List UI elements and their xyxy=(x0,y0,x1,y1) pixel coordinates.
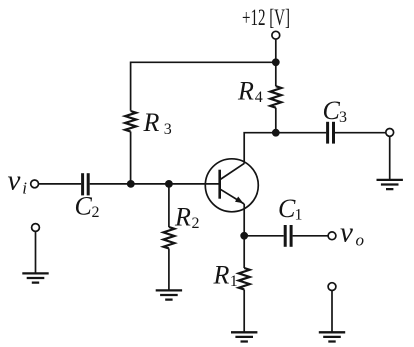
label C1 xyxy=(278,194,303,223)
svg-text:C: C xyxy=(278,194,296,223)
node A junction dot xyxy=(272,58,280,66)
ground under R2 xyxy=(156,290,182,299)
wire terminal down to ground xyxy=(389,136,391,179)
terminal output reference (open circle) xyxy=(328,283,336,291)
wire node C to Q1 collector xyxy=(244,133,276,164)
ground under C3 terminal xyxy=(377,180,403,189)
wire Q1 emitter down to node E xyxy=(243,204,245,236)
label R3 xyxy=(143,108,172,138)
wire R3 bottom to node B xyxy=(130,132,132,184)
wire C1 to vo terminal xyxy=(293,235,329,237)
node E junction dot (emitter node) xyxy=(240,232,248,240)
terminal left reference (open circle) xyxy=(32,224,40,232)
resistor R2 zigzag xyxy=(163,227,174,248)
wire node B to node D xyxy=(131,183,169,185)
svg-text:3: 3 xyxy=(339,109,347,126)
wire vi terminal to C2 xyxy=(39,183,82,185)
wire node A to R3 top (L corner) xyxy=(131,62,276,111)
svg-text:R: R xyxy=(237,77,254,106)
node B junction dot (base rail left) xyxy=(127,180,135,188)
svg-text:3: 3 xyxy=(164,121,172,138)
wire R1 bottom to ground xyxy=(243,290,245,332)
svg-text:+12 [V]: +12 [V] xyxy=(242,5,290,30)
capacitor C3 plates xyxy=(328,122,334,144)
wire C2 to node B xyxy=(90,183,131,185)
ground under R1 xyxy=(231,332,257,341)
wire node D to Q1 base xyxy=(169,183,220,185)
svg-text:v: v xyxy=(340,216,353,248)
svg-text:R: R xyxy=(143,108,160,137)
ground left reference xyxy=(22,273,48,282)
svg-text:1: 1 xyxy=(230,273,238,290)
wire C3 to output terminal xyxy=(335,132,386,134)
terminal vi input (open circle) xyxy=(31,180,39,188)
label C2 xyxy=(75,192,100,222)
label R2 xyxy=(174,203,200,233)
terminal +12V supply (open circle) xyxy=(272,31,280,39)
capacitor C2 plates xyxy=(83,173,89,195)
resistor R3 zigzag xyxy=(125,111,136,132)
node C junction dot (collector node) xyxy=(272,129,280,137)
svg-text:R: R xyxy=(174,203,191,232)
svg-text:i: i xyxy=(22,178,27,197)
transistor Q1 emitter lead xyxy=(220,189,244,204)
svg-text:2: 2 xyxy=(92,204,100,221)
transistor Q1 collector lead xyxy=(220,163,244,179)
resistor R4 zigzag xyxy=(270,86,281,107)
wire node D down to R2 xyxy=(168,184,170,227)
svg-text:R: R xyxy=(213,261,230,290)
node D junction dot (R2 tap) xyxy=(165,180,173,188)
svg-text:o: o xyxy=(356,230,365,249)
transistor Q1 emitter arrowhead xyxy=(235,197,243,204)
svg-text:1: 1 xyxy=(295,206,303,223)
wire R4 bottom to node C xyxy=(275,108,277,133)
svg-text:4: 4 xyxy=(255,89,263,106)
transistor Q1 base bar xyxy=(218,170,221,199)
wire node C to C3 xyxy=(276,132,326,134)
svg-text:C: C xyxy=(323,96,341,125)
capacitor C1 plates xyxy=(285,225,291,247)
transistor Q1 body circle xyxy=(205,159,258,212)
svg-text:C: C xyxy=(75,192,93,221)
wire left reference terminal to ground xyxy=(35,231,37,273)
terminal vo output (open circle) xyxy=(328,232,336,240)
label vi input xyxy=(8,165,28,198)
ground output reference xyxy=(319,332,345,341)
wire node A down to R4 xyxy=(275,62,277,86)
wire node E down to R1 xyxy=(243,236,245,268)
resistor R1 zigzag xyxy=(239,268,250,289)
terminal C3 right (open circle) xyxy=(386,129,394,137)
wire +12V terminal to node A xyxy=(275,39,277,62)
svg-text:2: 2 xyxy=(192,215,200,232)
label R1 xyxy=(213,261,238,291)
label vo output xyxy=(340,216,364,249)
wire node E to C1 xyxy=(244,235,284,237)
label C3 xyxy=(323,96,348,126)
label R4 xyxy=(237,77,263,107)
wire output reference terminal to ground xyxy=(331,291,333,332)
wire R2 bottom to ground xyxy=(168,249,170,291)
svg-text:v: v xyxy=(8,165,21,197)
